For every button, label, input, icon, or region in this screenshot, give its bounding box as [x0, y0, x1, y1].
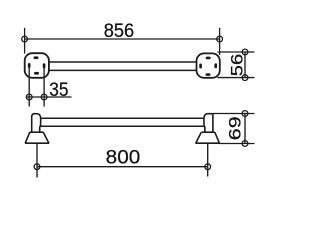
right flange screw slot N [206, 57, 211, 60]
left post: cone top edge [30, 131, 44, 133]
right flange (top view) [197, 53, 220, 77]
dimension 35: dimension line [26, 96, 71, 98]
left flange (top view) [25, 53, 49, 78]
svg-text:856: 856 [104, 20, 134, 42]
svg-text:800: 800 [106, 146, 141, 168]
dimension 35: extension line right (through flange) [43, 66, 45, 106]
right flange screw slot W [199, 64, 202, 69]
left flange screw slot S [34, 72, 39, 75]
dimension 856: dimension line [25, 38, 220, 40]
svg-text:69: 69 [227, 116, 245, 140]
dimension 69: bottom line [219, 143, 254, 145]
right flange screw slot S [206, 73, 211, 76]
dimension 35: extension line left (through flange) [28, 66, 30, 107]
dimension 856: right terminator circle [217, 36, 223, 42]
svg-text:56: 56 [229, 54, 247, 77]
dimension 800: right terminator circle [205, 164, 211, 170]
left post (front view): stem [32, 114, 41, 133]
dimension 35: left terminator circle [26, 94, 32, 100]
bar bottom edge (top view) [49, 69, 197, 71]
left post: cone sides and bottom [25, 132, 49, 143]
right post: cone sides and bottom [195, 132, 219, 143]
dimension 856: left terminator circle [22, 36, 28, 42]
dimension 69: bottom terminator circle [242, 141, 248, 147]
dimension 56: top terminator circle [242, 49, 248, 55]
dimension 800: dimension line [37, 166, 208, 168]
dimension 69: top terminator circle [242, 111, 248, 117]
dimension 69: vertical dimension line [244, 114, 246, 144]
left flange screw slot N [34, 56, 39, 59]
right post (front view): stem (mirrored) [204, 114, 213, 133]
dimension 56: bottom terminator circle [242, 75, 248, 81]
left flange screw slot E [43, 63, 46, 68]
left flange screw slot W [28, 63, 31, 68]
svg-text:35: 35 [49, 79, 68, 101]
dimension 56: bottom line [218, 77, 255, 79]
right flange screw slot E [214, 63, 217, 68]
dimension 69: top line [213, 113, 255, 115]
dimension 56: top line [218, 51, 255, 53]
dimension 856: extension line left [24, 28, 26, 54]
bar bottom edge (front view) [40, 125, 205, 127]
dimension 800: left terminator circle [34, 164, 40, 170]
dimension 56: vertical dimension line [244, 52, 246, 78]
dimension 800: centerline under right post [207, 143, 209, 176]
bar top edge (top view) [49, 61, 197, 63]
dimension 800: centerline under left post [36, 143, 38, 177]
dimension 856: extension line right [219, 28, 221, 55]
bar top edge (front view) [41, 117, 205, 119]
dimension 35: right terminator circle [41, 94, 47, 100]
right post: cone top edge [201, 131, 215, 133]
